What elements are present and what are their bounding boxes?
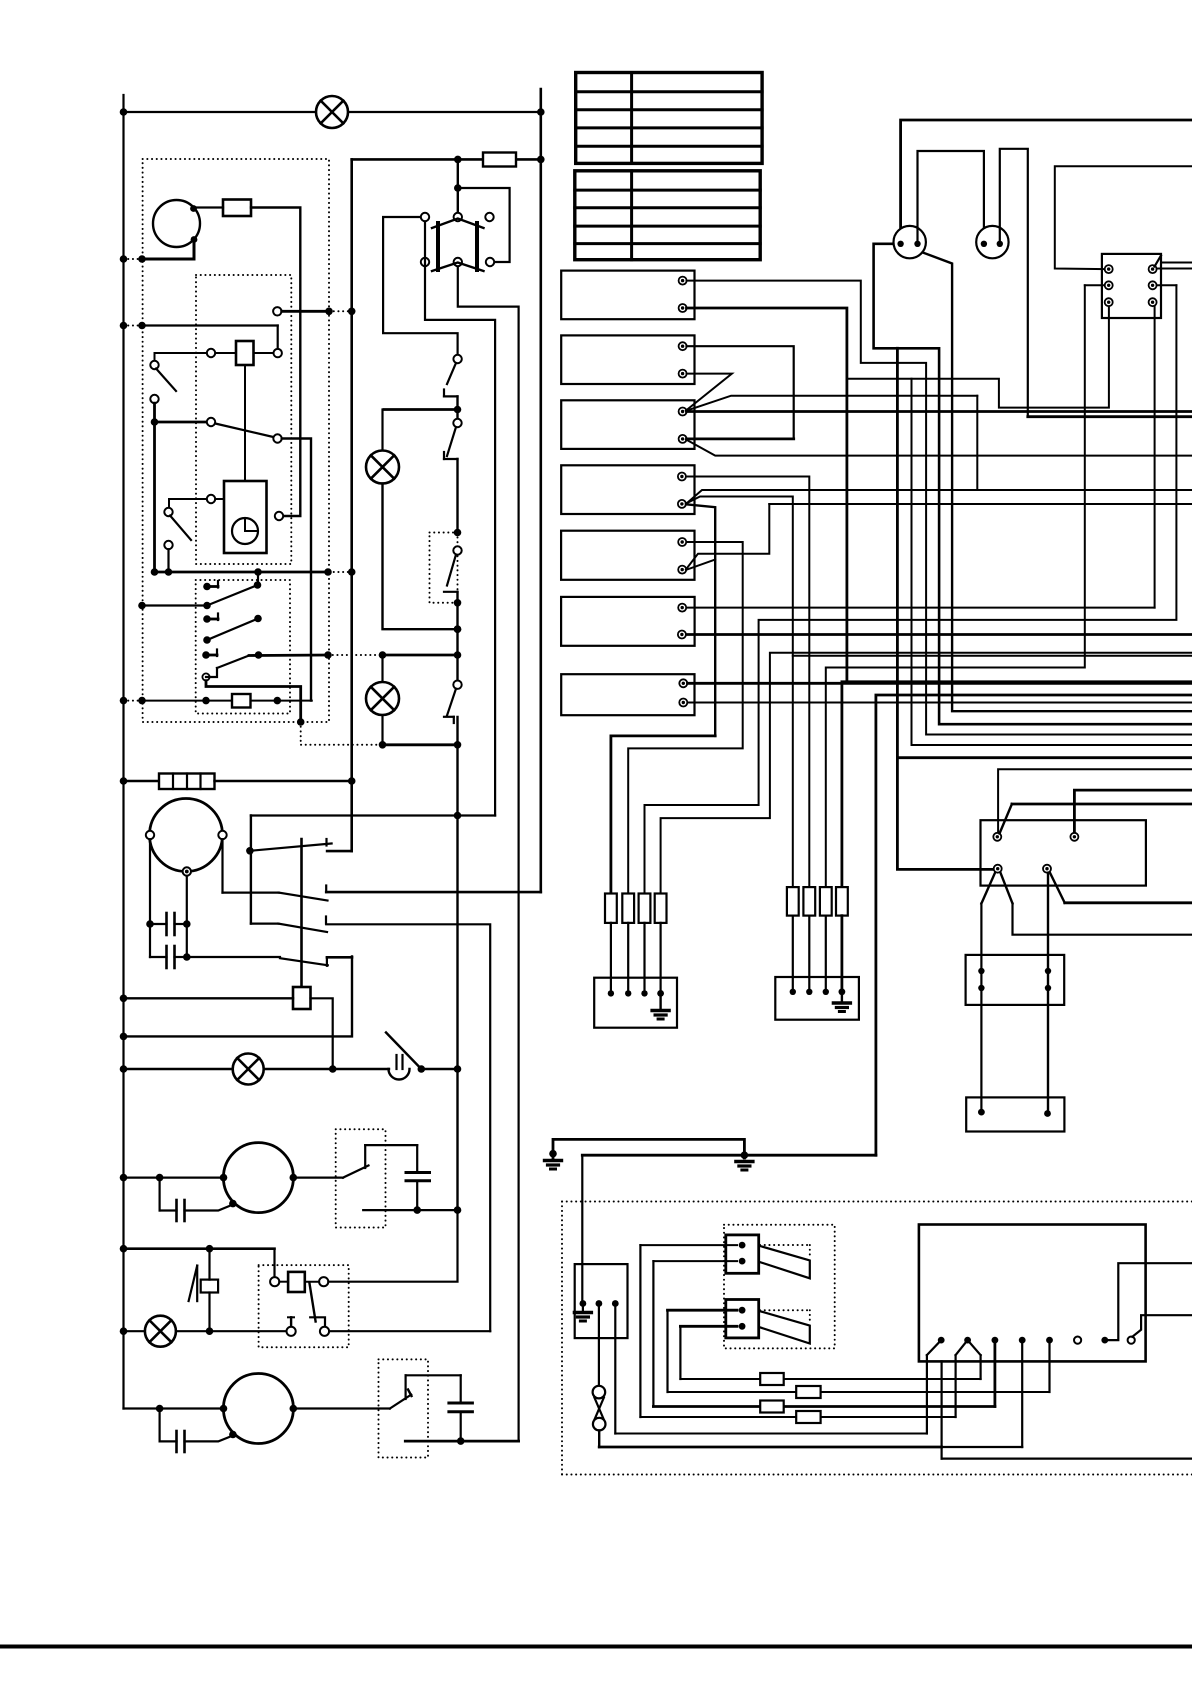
wire fuse2-1 link (793, 655, 1192, 657)
plug P1 (894, 226, 926, 258)
wire lamp row right (421, 1068, 457, 1070)
program switch P2 (203, 615, 211, 623)
wire top supply (124, 111, 541, 113)
wire conn1 links (640, 1244, 737, 1246)
wire control pin3 (994, 1340, 997, 1406)
control unit box (919, 1225, 1146, 1362)
wire row3 dotted (328, 654, 383, 656)
wire chain bypass drop (250, 816, 252, 924)
lamp H5 (366, 682, 399, 715)
relay K2 coil box (293, 987, 311, 1009)
wire node to chain (383, 743, 458, 746)
lamp H1 mains indicator (316, 96, 348, 128)
door plunger switch (386, 1033, 421, 1070)
wire S3 to bus (167, 549, 169, 572)
relay K3 coil (270, 1277, 279, 1286)
ground terminal (582, 1304, 584, 1313)
wire fuse2-4 feed (842, 682, 1192, 887)
switch S2 changeover (207, 418, 215, 426)
timer clock TM (224, 481, 267, 553)
wire thermistor out (599, 1446, 941, 1449)
wire B3-t1 aux (686, 396, 977, 411)
relay K3 switch (309, 1283, 315, 1322)
wire to relay K3 (273, 1249, 275, 1277)
wire relay to switch S1 (155, 353, 207, 361)
wire fused link1 (640, 1416, 955, 1418)
relay block K4 (1102, 254, 1161, 318)
capacitor C2 (165, 946, 168, 968)
wire M2 bottom terminal (186, 876, 188, 957)
switch S3 (164, 508, 172, 516)
heater row (124, 780, 160, 782)
wire fuse2-3 feed (826, 285, 1085, 887)
lamp H4 (233, 1054, 264, 1085)
wire fused link4 (668, 1391, 1050, 1393)
capacitor C6 (460, 1375, 462, 1403)
wire bundle L2 (652, 1261, 654, 1406)
wire B7-t1 (688, 682, 1192, 685)
wire R2 to changeover drop (251, 700, 312, 702)
program switch P4 row (202, 697, 210, 705)
wire dotted link to rail 2 (124, 325, 143, 327)
wire cap bus B (405, 1440, 518, 1443)
wire bus drop to row1 (257, 572, 259, 585)
wire dotted bus to rail (329, 571, 352, 573)
wire lamp H2 bottom (383, 484, 458, 630)
motor M1 timer motor (153, 200, 200, 247)
lamp row door (124, 1068, 390, 1070)
program switch P3 (202, 651, 210, 659)
fuse F1 (483, 153, 516, 167)
wire to relay right terminal (277, 326, 279, 349)
pump row B (124, 1407, 224, 1409)
wire buzzer row (124, 1247, 275, 1250)
ground fuse box1 (659, 993, 661, 1010)
wire K3 out (329, 1330, 490, 1332)
lamp H2 top wire (381, 410, 383, 452)
wire chain mid (456, 629, 458, 680)
pressure switch A (293, 1176, 343, 1178)
wire door-lock bypass (458, 188, 510, 262)
wire K4 R2 (1157, 284, 1177, 286)
wire tacho drop (897, 348, 993, 869)
program switch P1 (203, 583, 211, 591)
wire plug P2 out (1000, 149, 1028, 417)
wire tacho legs (981, 873, 995, 904)
connector CN2 (726, 1300, 759, 1338)
wire edge 745 (912, 379, 1192, 745)
wire B2-t1 (687, 346, 794, 439)
thermal protector box (966, 955, 1065, 1005)
wire B2-t2 (686, 374, 732, 411)
clock right terminal (275, 512, 283, 520)
connector box B4 (561, 465, 694, 514)
wire control right out1 (1105, 1263, 1192, 1340)
pressure switch B (293, 1407, 390, 1409)
wire control pin2a (956, 1340, 968, 1355)
connector box B1 (561, 271, 694, 320)
wire bus B drop (581, 1155, 583, 1300)
dotted control box A (143, 159, 329, 722)
connector box B6 (561, 597, 695, 646)
wire B7-t2 (688, 702, 1192, 704)
lamp H2 to relay node dotted (301, 744, 383, 746)
wire right supply rail (539, 89, 542, 892)
wire bus 572 (155, 571, 330, 574)
wire door-lock feed (457, 159, 459, 213)
interlock switch S7 (453, 681, 461, 689)
plug P2 (976, 226, 1008, 258)
wire S1 to changeover (155, 421, 207, 424)
door lock S10 (454, 213, 462, 221)
wire timer motor to resistor (196, 206, 223, 208)
interlock switch S5 (456, 410, 458, 419)
ground left (545, 1159, 562, 1162)
wire motor pin4 (1050, 873, 1065, 903)
page footer rule (0, 1645, 1192, 1649)
dotted connector housing (724, 1225, 835, 1349)
ground right (736, 1160, 753, 1163)
wire chain lower (456, 717, 458, 1210)
wire M2 right terminal (221, 839, 223, 892)
wire plug tail (922, 252, 1192, 711)
wire fuse feeder (352, 158, 541, 161)
dotted pressure box E (336, 1129, 386, 1227)
wire B5-t2 fan1b (769, 503, 1192, 505)
wire P3 pivot return (206, 681, 301, 722)
wire ground drop (876, 695, 1192, 1155)
carbon brush box (966, 1097, 1064, 1131)
capacitor C5 (159, 1409, 161, 1442)
lamp H2 (366, 451, 399, 484)
wire heater to rail (215, 780, 352, 782)
wire control pin1 (927, 1340, 941, 1355)
buzzer BZ (196, 1266, 198, 1302)
wire dotted pivot link (300, 722, 302, 745)
wire B5-t1 (628, 542, 743, 894)
wire aux contact feed (142, 324, 278, 326)
wire control t3 link (615, 1433, 927, 1435)
wire pin to rail (282, 310, 329, 313)
wire B4-t2 fan1 (686, 497, 793, 888)
wire B3-t1 main (687, 410, 1192, 413)
connector box B7 (561, 674, 694, 715)
wire bundle L4 (679, 1326, 681, 1379)
wire cap bus A (363, 1209, 457, 1211)
table legend 2 (575, 171, 760, 260)
motor M4 pump (223, 1374, 293, 1444)
reversing contact row2 (223, 891, 279, 893)
wire ground bus A (553, 1139, 744, 1158)
fuse box1 (594, 978, 677, 1028)
relay K4 blade (1155, 256, 1162, 267)
contact B (405, 1375, 407, 1399)
motor unit box (981, 820, 1146, 885)
wire t3 drop (614, 1308, 616, 1434)
dotted relay box F (259, 1265, 349, 1347)
wire interlock top link (383, 217, 458, 355)
relay K2 armature (300, 839, 303, 987)
connector CN1 (726, 1235, 759, 1273)
wire bundle L1 (639, 1245, 641, 1417)
plug bridge (918, 151, 984, 243)
wire B1-t1 (687, 281, 1192, 735)
relay K1 coil (207, 349, 215, 357)
wire fused link3 (653, 1405, 995, 1408)
reversing contact row4 (187, 956, 280, 958)
wire control pin5 (1048, 1340, 1050, 1392)
wire ground bus B (582, 1154, 876, 1157)
lamp row end (124, 1330, 287, 1332)
wire motor pin1 aux (1012, 803, 1192, 806)
pump row A (124, 1176, 224, 1178)
thermistor chain (598, 1304, 600, 1387)
wire lamp1 feed (384, 408, 458, 411)
clock left terminal (207, 495, 215, 503)
table legend 1 (576, 73, 762, 164)
wire M2 left winding (149, 839, 151, 957)
ground fuse box2 (841, 992, 843, 1003)
wire K4 L3 (847, 306, 1109, 407)
wire S5 down (456, 459, 458, 529)
wire contact4 to rail (124, 956, 353, 1036)
wire relay feed (1055, 166, 1192, 269)
wire left supply rail (122, 95, 124, 1409)
wire K4 R3 (1154, 306, 1156, 607)
interlock switch S4 (453, 355, 461, 363)
dotted main control border (562, 1201, 1192, 1203)
wire B5-t2 fan1 (686, 504, 769, 569)
wire control pin2b (968, 1340, 981, 1355)
motor M2 drum motor (150, 799, 223, 872)
wire B4-t2 fan2 (686, 490, 1192, 504)
wire K3 coil out (328, 1210, 457, 1282)
dotted pressure box G (379, 1359, 429, 1457)
dotted program switch box C (196, 580, 290, 714)
wire lamp2 stem (381, 655, 383, 682)
wire control right out2 (1132, 1315, 1192, 1337)
wire B4-t1 (687, 477, 810, 888)
reversing contact row3 (251, 922, 278, 924)
wire control pin4 (1021, 1340, 1023, 1447)
wire B4-t2 fan3 (686, 504, 715, 736)
wire fuse1-4 feed (661, 653, 1192, 894)
resistor R1 (223, 200, 251, 217)
wire mains top (901, 120, 1192, 243)
wire motor pin1 (998, 769, 1192, 832)
wire coil to clock (244, 365, 246, 481)
connector box B3 (561, 400, 694, 449)
terminal pin (273, 307, 281, 315)
dotted thermal box D (430, 533, 458, 603)
wire heater supply (1028, 415, 1192, 418)
wire timer common rail (350, 159, 353, 851)
wire K4 L2 (1085, 284, 1105, 286)
fuse bank1 F2-F5 (605, 894, 617, 923)
wire conn2 links (668, 1309, 738, 1312)
dotted timer box B (196, 275, 291, 564)
capacitor C4 (416, 1145, 418, 1172)
wire bypass link (251, 814, 458, 816)
wire K4 top (1161, 262, 1192, 264)
heater resistor R3 (159, 774, 215, 790)
wire B6-t1 (687, 607, 1155, 609)
capacitor C3 (159, 1178, 161, 1211)
wire fused link2 (680, 1378, 980, 1380)
capacitor C1 (165, 913, 168, 935)
wire door-lock neutral to rail (458, 267, 519, 1442)
wire resistor to clock terminal (251, 208, 300, 517)
wire S4 to lamp node (456, 396, 458, 405)
reversing contact row1 (250, 844, 332, 851)
switch S1 (150, 361, 158, 369)
connector jack symbol (395, 1055, 397, 1069)
wire control pin1 bottom (940, 1361, 942, 1458)
wire fuse1-3 feed (645, 285, 1177, 893)
wire clock to switch S3 (169, 499, 207, 508)
wire tacho thick (897, 756, 1192, 759)
interlock switch S6 (453, 546, 461, 554)
wire bundle L3 (666, 1310, 668, 1392)
wire dotted link to rail (124, 258, 143, 260)
motor M3 pump (223, 1143, 293, 1213)
wire B3-t2 aux (686, 440, 1192, 456)
wire B6-t2 (687, 633, 1192, 636)
wire fuse1-1 feed (611, 736, 715, 894)
wire B5-t2 fan2 (686, 560, 715, 570)
wire row3 output (249, 654, 328, 657)
terminal block (575, 1264, 628, 1338)
wire door-lock to interlock chain (425, 222, 495, 816)
fuse bank2 F6-F9 (787, 887, 799, 916)
fuse box2 (775, 977, 859, 1020)
wire K4 R1 (1157, 268, 1192, 270)
wire B1-t2 (687, 308, 847, 682)
wire bypass to rail495 (458, 814, 496, 816)
wire dotted pin link (329, 310, 352, 312)
wire motor pin2 (1074, 790, 1192, 832)
wire plug circle link (874, 244, 1192, 724)
wire K2 coil right (311, 998, 333, 1069)
resistor R2 (232, 694, 251, 708)
connector box B2 (561, 335, 694, 384)
lamp H3 (145, 1316, 176, 1347)
wire B3-t2 main (687, 437, 794, 440)
connector box B5 (561, 531, 694, 580)
wire row3 to rail490 (326, 924, 490, 1331)
wire K2 coil left (124, 997, 294, 999)
wire changeover to program (282, 439, 311, 701)
wire sensor return (942, 1457, 1192, 1459)
wire S1 to bus (153, 403, 156, 572)
wire timer motor return (142, 242, 194, 259)
wire row3 to chain (383, 654, 458, 657)
